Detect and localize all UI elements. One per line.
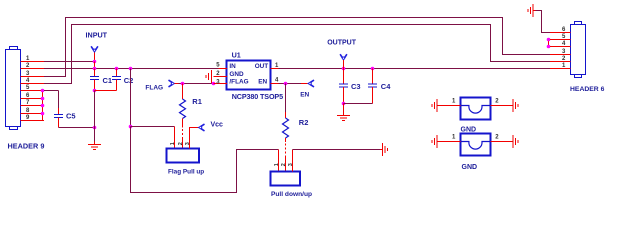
svg-text:INPUT: INPUT <box>86 31 108 40</box>
svg-text:GND: GND <box>461 126 477 133</box>
header9 pin 6 stub <box>21 93 45 99</box>
capacitor C4 <box>368 69 391 104</box>
wire vin loop to pulldown jumper pin1 <box>131 127 279 193</box>
wire pin1 row to INPUT junction <box>44 61 95 63</box>
svg-text:5: 5 <box>216 63 220 69</box>
wire OUT rail to header6 pin1 <box>279 68 551 70</box>
junction C3 bottom <box>342 102 346 106</box>
svg-text:Pull down/up: Pull down/up <box>271 191 312 198</box>
U1 pin 1 OUT stub <box>271 63 280 69</box>
junction at /FLAG pin <box>212 82 216 86</box>
svg-text:C4: C4 <box>381 82 391 91</box>
junction INPUT/input rail <box>93 67 97 71</box>
wire header9 pin3 to header6 pin3 (top run 1) <box>44 18 550 77</box>
header9 pin 4 stub <box>21 78 45 84</box>
wire R1 dashed lead to flag jumper pin2 <box>182 129 184 137</box>
wire pin3 row to ground <box>293 149 381 151</box>
ground top right <box>528 4 536 17</box>
gnd jumper1 left ground <box>432 99 461 112</box>
gnd jumper2 left ground <box>432 135 461 148</box>
junction C5/gnd column <box>93 126 97 130</box>
wire vin tap to flag jumper pin1 <box>131 126 175 128</box>
svg-text:R2: R2 <box>299 118 309 127</box>
junction INPUT/pin1 row <box>93 60 97 64</box>
junction C1 bottom <box>93 89 97 93</box>
capacitor C5 <box>54 108 76 128</box>
svg-text:4: 4 <box>275 78 279 84</box>
off-page connector EN arrow <box>308 80 314 87</box>
flag jumper pin2 stub <box>182 137 184 149</box>
header6 pin 4 stub <box>550 41 571 47</box>
svg-text:3: 3 <box>216 79 220 85</box>
wire vin tap down <box>130 69 132 127</box>
wire C5 top lead <box>58 91 60 109</box>
header9 pin 3 stub <box>21 71 45 77</box>
ground right of pulldown jumper <box>380 143 388 156</box>
wire flag jumper pin1 <box>174 127 176 149</box>
wire INPUT stem <box>94 52 96 61</box>
header9 pin 2 stub <box>21 63 45 69</box>
header9 pin 1 stub <box>21 56 45 62</box>
junction EN/R2 <box>284 82 288 86</box>
wire EN to arrow <box>301 83 308 85</box>
wire FLAG to U1 /FLAG pin <box>179 83 214 85</box>
ground below C3 <box>337 113 350 121</box>
svg-text:HEADER 9: HEADER 9 <box>8 142 45 151</box>
junction header6 pin4 <box>547 45 551 49</box>
junction FLAG/R1 <box>181 82 185 86</box>
wire R2 dashed lead to pulldown jumper pin2 <box>285 144 287 157</box>
power symbol Vcc arrow <box>199 124 205 131</box>
svg-text:EN: EN <box>258 79 267 86</box>
jumper J2 Flag Pull up <box>167 142 205 175</box>
wire pulldown jumper pin1 <box>278 150 280 172</box>
ground GND1 <box>88 142 101 150</box>
junction vin tap split <box>129 125 133 129</box>
ground at U1 GND pin <box>206 70 212 83</box>
svg-text:2: 2 <box>495 135 499 141</box>
svg-text:U1: U1 <box>232 51 241 60</box>
wire header9 pin4 to header6 pin2 (top run 2) <box>44 25 550 84</box>
gnd jumper1 right ground <box>491 99 519 112</box>
wire pulldown jumper pin3 <box>292 150 294 172</box>
svg-text:1: 1 <box>452 135 456 141</box>
resistor R1 <box>180 84 202 128</box>
junction vin tap on rail <box>129 67 133 71</box>
svg-text:OUT: OUT <box>255 63 269 70</box>
header6 pin 5 stub <box>550 34 571 40</box>
svg-text:EN: EN <box>300 92 309 99</box>
wire C5 bottom to gnd column <box>59 127 95 129</box>
header9 pin 5 stub <box>21 85 45 91</box>
wire C3 gnd stem <box>343 104 345 113</box>
junction OUTPUT/C3 <box>342 67 346 71</box>
U1 pin 2 GND stub <box>214 71 228 77</box>
capacitor C1 <box>90 69 112 91</box>
header9 pin 8 stub <box>21 108 45 114</box>
svg-text:C1: C1 <box>103 76 113 85</box>
svg-text:IN: IN <box>229 63 236 70</box>
op-amp U1 NCP380 TSOP5 <box>227 51 284 101</box>
off-page connector FLAG arrow <box>169 80 175 87</box>
wire pin2 row / input rail to U1 IN <box>44 68 219 70</box>
jumper J3 Pull down/up <box>271 163 313 198</box>
U1 pin 5 IN stub <box>216 63 227 69</box>
junction pins 5-8 <box>41 89 45 116</box>
svg-text:NCP380 TSOP5: NCP380 TSOP5 <box>232 92 283 101</box>
header6 pin 2 stub <box>550 56 571 62</box>
svg-text:GND: GND <box>462 164 478 171</box>
svg-text:C2: C2 <box>124 76 134 85</box>
svg-text:2: 2 <box>178 142 184 145</box>
wire tie header6 pins 4-5 <box>548 40 550 47</box>
connector J4 HEADER 6 body <box>571 22 586 78</box>
header6 pin 6 stub <box>550 27 571 33</box>
wire top ground to header6 pin6 <box>536 11 551 33</box>
svg-text:Flag Pull up: Flag Pull up <box>168 169 204 176</box>
pulldown jumper pin2 stub <box>285 157 287 172</box>
svg-text:1: 1 <box>274 163 280 166</box>
junction C4 <box>371 67 375 71</box>
wire flag jumper pin3 to Vcc <box>190 128 199 149</box>
svg-text:C3: C3 <box>351 82 361 91</box>
junction C2 top <box>115 67 119 71</box>
resistor R2 <box>283 112 309 142</box>
svg-text:OUTPUT: OUTPUT <box>327 40 357 47</box>
wire tie header9 pins 5-9 <box>42 91 44 121</box>
wire pin5 row to C5 <box>44 90 59 92</box>
wire FLAG arrow stub <box>175 83 179 85</box>
wire OUTPUT stem <box>343 60 345 68</box>
wire C3-C4 bottom rail <box>344 103 373 105</box>
capacitor C3 <box>339 69 361 104</box>
wire EN pin to junction <box>279 83 302 85</box>
svg-text:R1: R1 <box>192 97 202 106</box>
wire C2 bottom jog <box>95 90 117 92</box>
header9 pin 9 stub <box>21 115 45 121</box>
header6 pin 1 stub <box>550 63 571 69</box>
wire gnd column <box>94 91 96 142</box>
svg-text:2: 2 <box>281 163 287 166</box>
svg-text:GND: GND <box>229 71 244 78</box>
svg-text:2: 2 <box>495 99 499 105</box>
wire EN down to R2 <box>285 84 287 113</box>
off-page connector INPUT arrow <box>91 46 98 52</box>
gnd jumper2 right ground <box>491 135 519 148</box>
jumper J6 GND <box>461 134 491 172</box>
svg-text:Vcc: Vcc <box>211 122 224 129</box>
connector J1 HEADER 9 body <box>6 47 21 130</box>
wire INPUT pin1-pin2 link <box>94 62 96 69</box>
junction header6 pin5 <box>547 38 551 42</box>
header6 pin 3 stub <box>550 49 571 55</box>
jumper J5 GND <box>461 98 491 134</box>
svg-text:1: 1 <box>452 99 456 105</box>
svg-text:FLAG: FLAG <box>145 84 163 91</box>
svg-text:HEADER 6: HEADER 6 <box>570 86 605 93</box>
header9 pin 7 stub <box>21 100 45 106</box>
U1 pin 4 EN stub <box>271 78 280 84</box>
svg-text:C5: C5 <box>66 111 76 120</box>
svg-text:1: 1 <box>170 142 176 145</box>
svg-text:/FLAG: /FLAG <box>229 79 248 86</box>
off-page connector OUTPUT arrow <box>340 54 347 60</box>
capacitor C2 <box>112 69 133 91</box>
U1 pin 3 /FLAG stub <box>214 79 228 85</box>
